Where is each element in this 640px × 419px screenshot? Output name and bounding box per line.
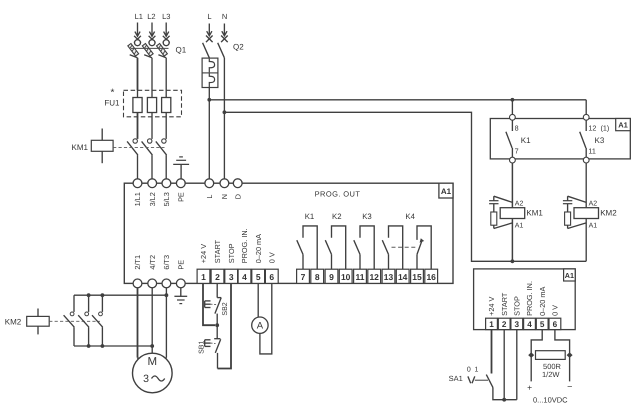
svg-text:N: N <box>220 194 229 199</box>
svg-text:10: 10 <box>341 272 351 282</box>
svg-text:4: 4 <box>527 320 532 329</box>
svg-text:5: 5 <box>256 272 261 282</box>
svg-text:15: 15 <box>412 272 422 282</box>
svg-text:PROG. IN.: PROG. IN. <box>525 281 534 316</box>
junction start-stop link <box>502 398 506 402</box>
svg-text:0: 0 <box>467 367 471 374</box>
label A1 (remote box) <box>564 269 576 281</box>
motor M 3~ <box>133 353 173 393</box>
wire terminal 1 to junction <box>203 283 215 325</box>
svg-text:12: 12 <box>588 123 596 132</box>
svg-text:+24 V: +24 V <box>199 244 208 263</box>
svg-text:2: 2 <box>502 320 507 329</box>
svg-text:2/T1: 2/T1 <box>133 255 142 270</box>
terminal 1/L1 (input) <box>133 179 142 207</box>
svg-text:*: * <box>111 88 115 99</box>
wire control bus L to K1 K3 <box>209 100 586 115</box>
svg-text:1: 1 <box>201 272 206 282</box>
terminal PE (input) <box>176 179 185 202</box>
relay contact K1 (aux) <box>506 114 531 163</box>
svg-text:KM2: KM2 <box>600 209 617 218</box>
svg-text:9: 9 <box>329 272 334 282</box>
svg-text:7: 7 <box>515 147 519 156</box>
terminal 2/T1 (output) <box>133 255 142 288</box>
svg-text:A2: A2 <box>589 201 598 208</box>
label terminal 6 0V <box>268 252 277 263</box>
svg-text:STOP: STOP <box>513 296 522 316</box>
wire bypass bottom rail <box>74 344 154 348</box>
selector switch SA1 <box>449 367 493 388</box>
wire KM2 coil to rail <box>585 219 587 262</box>
relay contact K2 <box>325 212 345 269</box>
svg-text:PROG. OUT: PROG. OUT <box>315 189 361 198</box>
svg-text:1/L1: 1/L1 <box>133 192 142 206</box>
svg-text:FU1: FU1 <box>104 99 120 108</box>
wire SA1 to terminals 2 and 3 <box>493 330 517 400</box>
svg-text:8: 8 <box>315 272 320 282</box>
svg-text:2: 2 <box>215 272 220 282</box>
label terminal 1 +24V <box>199 244 208 263</box>
label remote terminal 3 <box>513 296 522 316</box>
rc snubber KM1 <box>489 196 512 228</box>
svg-text:7: 7 <box>301 272 306 282</box>
ground at PE output <box>174 288 187 304</box>
svg-text:SA1: SA1 <box>449 374 463 383</box>
junction KM1 coil rail <box>511 259 515 263</box>
svg-text:+: + <box>527 382 532 392</box>
wire remote terminal 1 down <box>491 330 493 374</box>
label remote terminal 6 <box>551 305 560 316</box>
junction N control tap <box>223 110 227 114</box>
relay contact K3 <box>354 212 374 269</box>
svg-text:K2: K2 <box>332 212 342 221</box>
pushbutton SB2 (NC) <box>205 283 229 325</box>
rc snubber KM2 <box>563 196 586 228</box>
wire L Q2 to terminal <box>208 88 210 179</box>
wire supply arrows L N <box>207 24 227 36</box>
wire L3 Q1 to FU1 <box>165 58 167 90</box>
svg-text:0–20 mA: 0–20 mA <box>538 287 547 316</box>
svg-text:6: 6 <box>269 272 274 282</box>
resistor 500R 1/2W <box>528 351 572 380</box>
relay contact K1 <box>297 212 317 269</box>
svg-text:8: 8 <box>515 123 519 132</box>
breaker Q1 <box>128 36 187 58</box>
coil KM2 (left) <box>5 309 49 335</box>
pushbutton SB1 (NO) <box>199 325 221 368</box>
svg-text:SB1: SB1 <box>199 341 206 354</box>
aux contact box A1 outline <box>490 119 630 159</box>
wire L1 FU1 to KM1 <box>137 113 139 139</box>
svg-text:A1: A1 <box>589 223 598 230</box>
label terminal 5 0-20mA <box>254 234 263 263</box>
terminal block 1-6 (remote box) <box>486 318 561 329</box>
svg-text:SB2: SB2 <box>222 302 229 315</box>
junction K1 feed <box>511 98 515 115</box>
wire L2 Q1 to FU1 <box>151 58 153 90</box>
svg-text:4: 4 <box>242 272 247 282</box>
svg-text:L: L <box>207 12 211 21</box>
svg-text:KM1: KM1 <box>526 209 543 218</box>
svg-text:L: L <box>205 195 214 199</box>
svg-text:0 V: 0 V <box>268 252 277 263</box>
wire 2/T1 to motor <box>138 288 143 364</box>
svg-text:1: 1 <box>489 320 494 329</box>
svg-text:11: 11 <box>356 272 365 282</box>
soft starter A1 outline <box>124 183 453 283</box>
svg-text:L1: L1 <box>135 12 143 21</box>
coil KM1 (right) <box>500 201 543 230</box>
svg-text:A: A <box>257 321 264 332</box>
source 0...10VDC <box>527 382 572 405</box>
svg-text:K3: K3 <box>362 212 372 221</box>
svg-text:5: 5 <box>540 320 545 329</box>
svg-text:A1: A1 <box>565 271 574 280</box>
svg-text:14: 14 <box>398 272 408 282</box>
coil KM1 (left) <box>72 129 114 164</box>
node L3 <box>162 12 170 21</box>
svg-text:A1: A1 <box>618 121 628 130</box>
wire L3 FU1 to KM1 <box>165 113 167 139</box>
svg-text:A1: A1 <box>441 187 452 196</box>
remote control box A1 outline <box>474 269 576 330</box>
wire KM2 actuator link (dashed) <box>49 320 100 322</box>
svg-text:A1: A1 <box>515 223 524 230</box>
label remote terminal 4 <box>525 281 534 316</box>
svg-text:START: START <box>213 239 222 263</box>
svg-text:1/2W: 1/2W <box>542 370 560 379</box>
label terminal 3 STOP <box>227 243 236 263</box>
node L <box>207 12 211 21</box>
svg-text:PE: PE <box>177 192 186 202</box>
junction SB node <box>215 323 219 327</box>
svg-text:4/T2: 4/T2 <box>148 255 157 270</box>
terminal L <box>205 179 214 199</box>
label remote terminal 1 <box>487 296 496 315</box>
junction L control tap <box>207 98 211 102</box>
svg-text:6: 6 <box>553 320 558 329</box>
svg-text:3/L2: 3/L2 <box>148 192 157 206</box>
node L1 <box>135 12 143 21</box>
label terminal 2 START <box>213 239 222 263</box>
wire L1 Q1 to FU1 <box>137 58 139 90</box>
svg-text:5/L3: 5/L3 <box>162 192 171 206</box>
svg-text:13: 13 <box>384 272 394 282</box>
contactor KM1 main contacts <box>127 139 167 179</box>
wire KM1 coil to rail <box>511 219 513 262</box>
svg-text:PE: PE <box>177 260 186 270</box>
ground at PE input <box>173 157 189 179</box>
svg-text:Q2: Q2 <box>233 43 244 52</box>
svg-text:K3: K3 <box>595 136 605 145</box>
wire K1 to KM1 coil <box>511 163 513 208</box>
terminal 3/L2 (input) <box>148 179 157 207</box>
terminal 4/T2 (output) <box>148 255 157 288</box>
svg-text:12: 12 <box>369 272 379 282</box>
svg-text:D: D <box>233 194 242 199</box>
svg-text:KM2: KM2 <box>5 317 22 326</box>
label remote terminal 5 <box>538 287 547 316</box>
node N <box>222 12 227 21</box>
terminal block 7-16 (PROG. OUT) <box>297 269 438 283</box>
svg-text:PROG. IN.: PROG. IN. <box>240 228 249 263</box>
node L2 <box>147 12 155 21</box>
breaker Q2 <box>202 36 244 88</box>
svg-text:Q1: Q1 <box>176 46 187 55</box>
label PROG. OUT <box>315 189 361 198</box>
svg-text:N: N <box>222 12 227 21</box>
svg-text:STOP: STOP <box>227 243 236 263</box>
ammeter A <box>252 283 272 354</box>
wire supply arrows L1 L2 L3 <box>135 23 169 37</box>
label A1 (aux box) <box>616 119 631 131</box>
svg-text:0–20 mA: 0–20 mA <box>254 234 263 263</box>
svg-text:START: START <box>500 292 509 316</box>
wire SB1 to terminal 3 <box>218 283 232 368</box>
wire control bus N to coil rail <box>224 112 586 261</box>
svg-text:K1: K1 <box>305 212 315 221</box>
relay contact K3 (aux) <box>580 114 610 163</box>
svg-text:+24 V: +24 V <box>487 296 496 315</box>
relay contact K4 (two poles, linked) <box>382 212 431 269</box>
label terminal 4 PROG.IN. <box>240 228 249 263</box>
svg-text:(1): (1) <box>601 124 610 133</box>
wire bypass top rail <box>74 293 168 297</box>
wire KM1 actuator link (dashed) <box>113 146 164 148</box>
label remote terminal 2 <box>500 292 509 316</box>
terminal block 1-6 (main box) <box>197 269 278 283</box>
svg-text:3: 3 <box>515 320 520 329</box>
contactor KM2 bypass contacts <box>64 295 103 346</box>
svg-text:16: 16 <box>426 272 436 282</box>
terminal 6/T3 (output) <box>162 255 171 288</box>
svg-text:L3: L3 <box>162 12 170 21</box>
wire 4/T2 to motor <box>151 288 153 353</box>
svg-text:6/T3: 6/T3 <box>162 255 171 270</box>
svg-text:3: 3 <box>143 373 149 385</box>
terminal N <box>220 179 229 199</box>
svg-text:11: 11 <box>588 147 595 156</box>
wire L2 FU1 to KM1 <box>151 113 153 139</box>
svg-text:M: M <box>148 356 158 368</box>
fuse FU1 <box>104 88 181 117</box>
terminal 5/L3 (input) <box>162 179 171 207</box>
coil KM2 (right) <box>574 201 617 230</box>
svg-text:K4: K4 <box>405 212 415 221</box>
terminal PE (output) <box>176 260 185 288</box>
svg-text:1: 1 <box>475 367 479 374</box>
wire K3 to KM2 coil <box>585 163 587 208</box>
svg-text:0 V: 0 V <box>551 305 560 316</box>
svg-text:A2: A2 <box>515 201 524 208</box>
wire terminal 5 to resistor <box>531 330 542 382</box>
svg-text:K1: K1 <box>521 136 531 145</box>
wire 6/T3 to motor <box>161 288 166 364</box>
label A1 (main box) <box>439 183 453 198</box>
svg-text:3: 3 <box>229 272 234 282</box>
svg-text:KM1: KM1 <box>72 143 89 152</box>
svg-text:L2: L2 <box>147 12 155 21</box>
terminal D <box>233 179 242 199</box>
svg-text:−: − <box>567 382 572 392</box>
wire terminal 6 to resistor <box>555 330 570 382</box>
svg-text:0...10VDC: 0...10VDC <box>533 395 568 404</box>
wire N Q2 to terminal <box>223 58 225 179</box>
